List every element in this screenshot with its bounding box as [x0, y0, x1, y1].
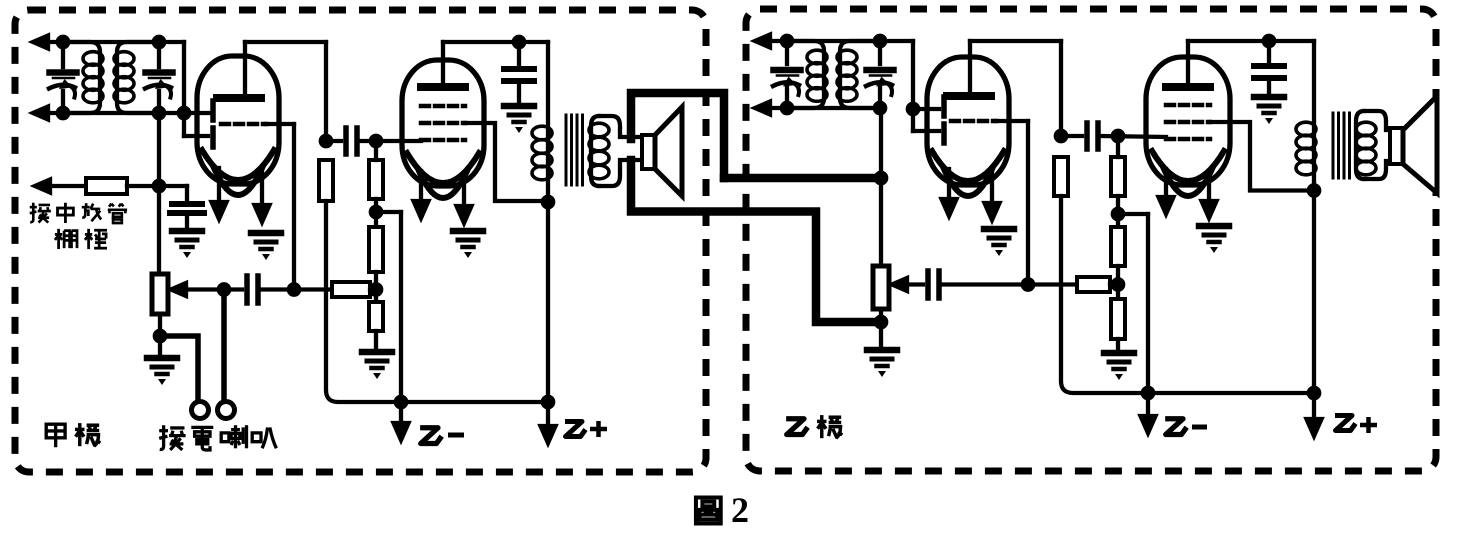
- svg-text:2: 2: [731, 490, 749, 530]
